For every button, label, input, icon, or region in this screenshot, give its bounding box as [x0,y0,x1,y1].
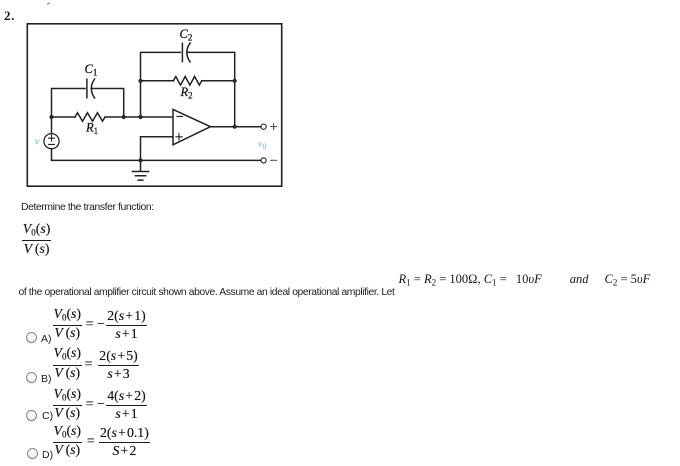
option B equation [53,347,139,381]
node C junction [138,115,142,119]
option C radio [26,410,37,421]
option D radio [27,448,38,459]
node B junction [122,115,126,119]
capacitor C1 [87,79,95,98]
resistor R2 [173,77,201,86]
stray tick mark top [46,2,49,5]
body sentence [19,287,395,298]
svg-text:C2: C2 [180,27,193,43]
border frame [27,24,281,186]
resistor R1 [75,113,105,122]
op-amp U1 [173,109,210,144]
node G junction [138,158,142,162]
ground [132,160,148,180]
wire C2 to right vertical [187,52,234,126]
option D label [42,450,53,460]
wire non-inverting input to ground rail [141,137,173,161]
question text [21,202,154,213]
svg-text:R1: R1 [85,121,98,137]
svg-text:v0: v0 [258,139,266,151]
svg-text:R2: R2 [180,85,193,101]
wire feedback left vertical [141,52,181,117]
option D equation [53,424,150,458]
inline math R1=R2=100ohm line [399,272,651,287]
wire C1 branch left [52,89,86,118]
node E junction [233,79,237,83]
node F junction [233,125,237,129]
wire R2 row right [202,80,235,82]
option C equation [53,387,147,421]
wire op-amp output [210,126,260,128]
option B label [41,374,52,384]
wire R1 input row [52,116,76,118]
terminal + output [261,124,277,130]
svg-text:C1: C1 [85,62,98,78]
wire R2 row left [141,80,174,82]
option C label [42,411,53,421]
option A radio [26,332,37,343]
terminal - output [261,158,277,163]
problem number 2. [4,8,15,24]
wire R1 to op-amp [105,116,173,118]
svg-text:v: v [35,137,40,148]
wire source to node A [51,117,53,134]
voltage source V [44,134,59,149]
capacitor C2 [182,43,190,62]
option A equation [53,307,147,341]
option B radio [26,372,37,383]
wire C1 branch right [91,89,123,118]
wire bottom rail [52,149,261,161]
option A label [41,334,52,344]
node D junction [138,79,142,83]
standalone fraction V0(s)/V(s) [22,222,51,258]
node A junction [49,115,53,119]
